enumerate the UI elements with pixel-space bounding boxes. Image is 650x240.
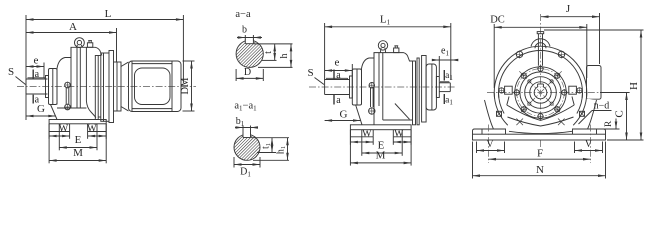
section a-a keyway xyxy=(245,39,253,44)
dim t xyxy=(254,43,293,45)
bolt circle centerline xyxy=(517,69,565,117)
seal ring view2 xyxy=(350,76,353,98)
hub inner circle xyxy=(530,82,551,103)
case rear slope view2 xyxy=(395,104,410,120)
svg-text:C: C xyxy=(614,110,626,117)
svg-text:W: W xyxy=(362,129,372,140)
svg-text:a: a xyxy=(35,69,40,80)
flange bolt holes n-d xyxy=(562,90,567,95)
feet view2 xyxy=(349,130,351,137)
svg-text:J: J xyxy=(566,3,571,15)
dim H xyxy=(544,29,644,31)
view 1: gear motor side view - centerline xyxy=(17,86,196,88)
left leg inner edge xyxy=(507,97,509,106)
side hex bolts xyxy=(499,88,504,93)
right leg outer edge xyxy=(588,100,597,129)
section a1-a1 keyway xyxy=(243,133,251,138)
case front wall view2 xyxy=(361,69,363,105)
dim e view2 xyxy=(351,64,353,76)
dim V right xyxy=(574,142,576,154)
svg-text:N: N xyxy=(536,164,544,176)
svg-text:M: M xyxy=(73,147,83,159)
output shaft view2 xyxy=(324,80,326,95)
shaft seal ring xyxy=(46,76,49,98)
inner screws xyxy=(550,102,553,105)
dim L1 xyxy=(324,23,326,80)
svg-text:e: e xyxy=(34,55,39,67)
dim e1 xyxy=(438,56,440,76)
inner circle arc through left leg xyxy=(499,93,505,114)
motor body seams xyxy=(131,61,133,111)
outer circle arc through right leg xyxy=(573,93,587,126)
case front wall vertical xyxy=(56,69,58,105)
dim DC xyxy=(493,24,495,88)
svg-text:t: t xyxy=(263,51,274,54)
adapter flange plate 2 xyxy=(101,53,104,121)
dim D xyxy=(235,69,237,81)
case lower-front slope xyxy=(51,105,58,120)
svg-text:G: G xyxy=(37,103,45,115)
dim L xyxy=(26,19,183,21)
dim E view2 xyxy=(361,130,363,156)
rear cover view2 xyxy=(426,64,436,110)
right leg inner edge xyxy=(572,97,574,106)
svg-text:F: F xyxy=(537,147,543,159)
hub circle xyxy=(525,77,557,109)
rim plug circles xyxy=(516,51,522,57)
motor flange plate xyxy=(117,62,121,111)
dim R xyxy=(598,128,620,130)
svg-text:E: E xyxy=(75,134,82,146)
dim C xyxy=(600,92,629,94)
case seam verticals xyxy=(70,47,72,108)
reducer case outline xyxy=(57,47,102,68)
case seams view2 xyxy=(373,53,375,125)
output bearing boss xyxy=(49,69,58,105)
inner circle arc through right leg xyxy=(577,93,583,114)
breather pin xyxy=(537,34,539,66)
plug view2 xyxy=(394,48,399,53)
front bolts view2 xyxy=(369,83,374,88)
dim DM xyxy=(183,60,195,62)
case inner circle xyxy=(499,51,583,135)
feet view1 xyxy=(48,124,50,132)
svg-text:n−d: n−d xyxy=(594,101,610,112)
svg-text:a−a: a−a xyxy=(235,9,251,20)
flange bolts on case front xyxy=(65,82,71,88)
bore circle xyxy=(534,86,547,99)
dim F xyxy=(489,158,591,160)
lower arch web xyxy=(508,117,574,126)
svg-text:R: R xyxy=(604,120,614,127)
dim b1 xyxy=(242,126,244,135)
dim W right view2 xyxy=(392,137,394,145)
left leg outer edge xyxy=(485,100,494,129)
dim W left view2 xyxy=(349,137,351,145)
case slope view2 xyxy=(356,105,363,125)
outer circle arc through left leg xyxy=(494,93,508,126)
flange ring circle xyxy=(520,72,561,113)
section mark a1 view2 xyxy=(443,70,445,81)
top dome xyxy=(531,39,550,47)
eyebolt view2 xyxy=(378,41,387,50)
dim G xyxy=(26,115,56,117)
dim V left xyxy=(476,142,478,154)
section mark a-a on output shaft xyxy=(32,70,34,79)
case outline view2 xyxy=(362,53,413,69)
section mark a-a view2 xyxy=(333,70,335,80)
svg-text:W: W xyxy=(87,123,97,134)
dim h xyxy=(258,66,293,68)
svg-text:H: H xyxy=(628,82,640,90)
rear flange plates view2 xyxy=(413,61,416,125)
input shaft view2 xyxy=(439,82,450,84)
motor neck xyxy=(121,62,129,67)
case outer circle xyxy=(494,46,587,139)
flange connector lines xyxy=(98,55,101,57)
base plate view1 xyxy=(49,120,106,124)
anchor cross marks xyxy=(516,119,523,126)
output shaft xyxy=(25,79,27,94)
bore keyway xyxy=(538,84,544,87)
anchor bolt centerlines xyxy=(488,125,490,164)
svg-text:V: V xyxy=(585,139,593,150)
svg-text:e: e xyxy=(335,57,340,69)
view 3 centerline horizontal xyxy=(487,92,630,94)
adapter flange plate 1 xyxy=(95,56,98,120)
svg-text:V: V xyxy=(486,139,494,150)
dim L extension lines xyxy=(25,15,27,120)
svg-text:a: a xyxy=(336,95,341,106)
left foot pad xyxy=(473,129,506,134)
dim W left xyxy=(48,132,50,139)
svg-text:W: W xyxy=(59,123,69,134)
view 2: reducer side view - centerline xyxy=(309,86,456,88)
base plate view2 xyxy=(350,125,411,130)
svg-text:DC: DC xyxy=(490,15,505,26)
svg-text:h: h xyxy=(279,54,290,59)
dim A extension line xyxy=(116,28,118,62)
dim b xyxy=(244,35,246,40)
diagonal centerlines xyxy=(519,71,561,113)
svg-text:b: b xyxy=(242,25,247,36)
output flange block right xyxy=(587,66,602,100)
dim N xyxy=(472,142,474,179)
pedestal white cover xyxy=(473,97,606,141)
dim M view2 xyxy=(349,130,351,166)
bottom web curve xyxy=(509,131,572,133)
dim t1 xyxy=(251,137,289,139)
upper arch web xyxy=(507,105,574,120)
dim D1 xyxy=(233,157,235,168)
case bottom edge xyxy=(57,107,86,109)
svg-text:S: S xyxy=(307,67,313,79)
svg-text:A: A xyxy=(69,21,77,33)
rear tall plate view2 xyxy=(422,56,427,123)
case rear bottom curve xyxy=(86,101,96,118)
motor body inner walls xyxy=(132,63,172,65)
lifting eyebolt xyxy=(75,38,85,48)
dim J xyxy=(599,13,601,64)
motor inner frame xyxy=(135,68,171,105)
svg-text:DM: DM xyxy=(180,77,191,95)
svg-text:S: S xyxy=(8,66,14,78)
svg-text:L: L xyxy=(105,8,112,20)
view 3 centerline vertical xyxy=(540,14,542,147)
leg bolts xyxy=(497,111,502,116)
svg-text:G: G xyxy=(340,108,348,120)
svg-text:M: M xyxy=(376,150,386,162)
case bottom shelf view2 xyxy=(383,119,413,121)
adapter tall plate xyxy=(109,51,114,123)
oil plug on case top xyxy=(87,43,92,48)
dim M xyxy=(48,124,50,163)
dim E xyxy=(58,124,60,150)
base plate view3 xyxy=(473,134,606,140)
rear boss view2 xyxy=(436,77,439,98)
motor body xyxy=(129,61,182,112)
dim G view2 xyxy=(325,120,361,122)
dim A xyxy=(26,32,117,34)
dim h1 xyxy=(253,159,289,161)
flange outer circle xyxy=(515,67,566,118)
bearing boss view2 xyxy=(352,69,361,105)
dim e xyxy=(26,66,44,68)
svg-text:D: D xyxy=(244,67,251,78)
dim W right xyxy=(87,132,89,139)
right foot pad xyxy=(573,129,606,134)
